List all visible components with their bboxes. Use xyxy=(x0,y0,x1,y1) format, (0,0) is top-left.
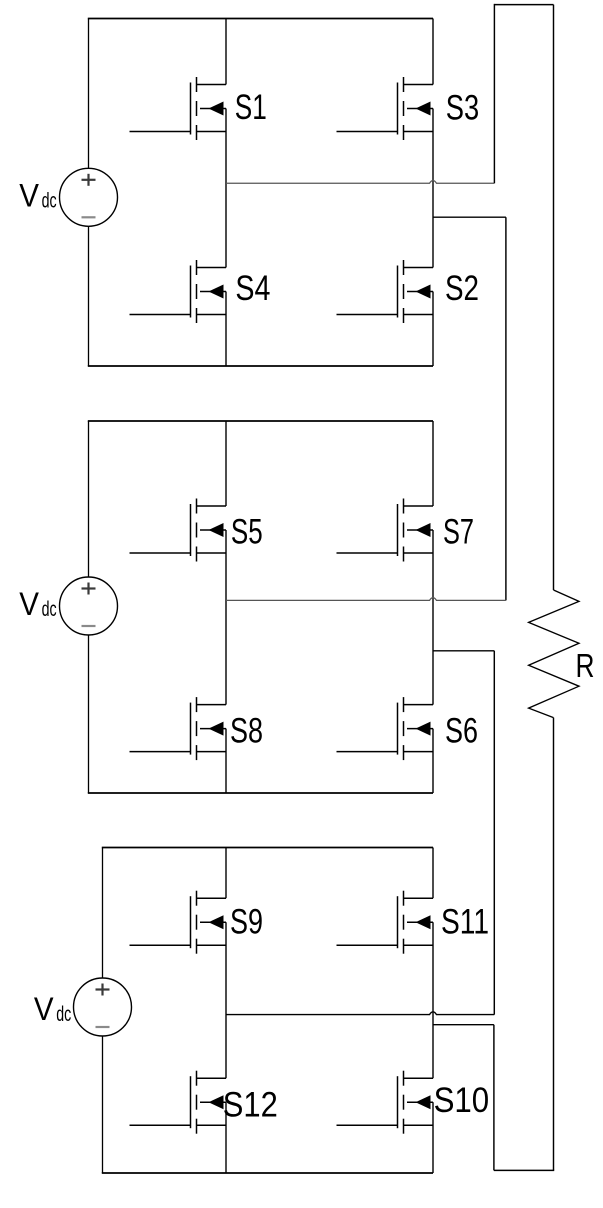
svg-text:S1: S1 xyxy=(235,88,267,127)
svg-text:V: V xyxy=(19,177,39,213)
svg-text:S9: S9 xyxy=(230,903,263,942)
svg-text:S5: S5 xyxy=(231,512,263,551)
svg-text:S11: S11 xyxy=(441,903,489,942)
svg-text:dc: dc xyxy=(42,189,57,212)
svg-text:S12: S12 xyxy=(223,1086,278,1125)
svg-text:S8: S8 xyxy=(230,712,263,751)
svg-text:S4: S4 xyxy=(235,269,270,308)
svg-text:S6: S6 xyxy=(445,712,478,751)
svg-text:dc: dc xyxy=(56,1003,71,1026)
svg-text:S7: S7 xyxy=(443,512,474,551)
svg-text:V: V xyxy=(19,586,39,622)
svg-text:R: R xyxy=(576,647,595,684)
svg-text:S3: S3 xyxy=(446,89,479,128)
svg-text:S10: S10 xyxy=(434,1081,490,1120)
svg-text:V: V xyxy=(34,991,54,1027)
svg-text:S2: S2 xyxy=(445,269,479,308)
svg-text:dc: dc xyxy=(42,598,57,621)
